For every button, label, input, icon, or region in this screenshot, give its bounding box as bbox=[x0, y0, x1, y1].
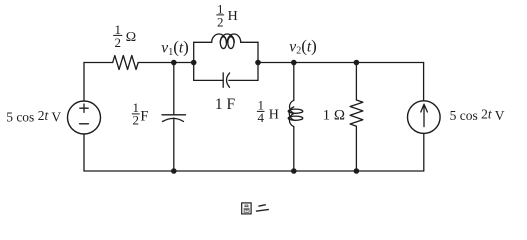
label inductor 1/4 H bbox=[257, 98, 279, 126]
inductor L 1/2 H loop 2 bbox=[228, 37, 234, 49]
wire branch below capacitor C 1/2 F to bottom rail bbox=[173, 118, 175, 171]
svg-text:2: 2 bbox=[217, 15, 224, 30]
wire top rail from LC right node to top-right corner bbox=[258, 62, 424, 64]
wire right vertical below current source bbox=[423, 133, 425, 171]
wire LC tank left riser bbox=[193, 42, 195, 80]
二 character bbox=[256, 205, 269, 212]
current source Is circle bbox=[408, 101, 441, 134]
圖 character bbox=[242, 203, 251, 214]
node capacitor bottom dot bbox=[171, 168, 177, 174]
wire branch v1 down to capacitor C 1/2 F bbox=[173, 63, 175, 115]
wire LC tank top branch right bbox=[241, 41, 258, 43]
capacitor C 1 F straight plate bbox=[222, 73, 224, 87]
inductor L 1/4 H hump 3 bbox=[289, 114, 293, 127]
svg-text:H: H bbox=[269, 108, 279, 123]
svg-text:5 cos 2t V: 5 cos 2t V bbox=[6, 108, 61, 124]
node inductor bottom dot bbox=[291, 168, 297, 174]
inductor L 1/4 H hump 1 bbox=[290, 100, 294, 113]
node resistor bottom dot bbox=[354, 168, 360, 174]
node v2 junction dot bbox=[291, 60, 297, 66]
voltage source Vs circle bbox=[68, 101, 101, 134]
wire left vertical above voltage source bbox=[83, 63, 85, 102]
wire left vertical below voltage source bbox=[83, 134, 85, 171]
label capacitor 1/2 F bbox=[132, 100, 149, 128]
svg-text:Ω: Ω bbox=[126, 30, 136, 45]
label figure caption 圖二 (drawn strokes) bbox=[242, 203, 269, 214]
inductor L 1/4 H loop 2 bbox=[288, 116, 303, 120]
capacitor C 1/2 F straight plate bbox=[162, 114, 186, 116]
voltage source plus sign bbox=[80, 104, 88, 112]
wire LC tank right riser bbox=[257, 42, 259, 80]
wire below resistor R 1 ohm to bottom rail bbox=[355, 126, 357, 171]
svg-text:v2(t): v2(t) bbox=[289, 37, 317, 57]
inductor L 1/4 H loop 1 bbox=[288, 109, 303, 113]
wire LC tank bottom branch right bbox=[229, 79, 258, 81]
inductor L 1/2 H hump 2 bbox=[220, 34, 234, 42]
wire branch v2 down to inductor L 1/4 H bbox=[293, 63, 295, 101]
capacitor C 1/2 F curved plate bbox=[163, 118, 184, 121]
capacitor C 1 F curved plate bbox=[227, 73, 230, 87]
svg-text:4: 4 bbox=[257, 110, 264, 125]
wire top rail left segment bbox=[84, 62, 113, 64]
wire right vertical above current source bbox=[423, 63, 425, 101]
svg-text:v1(t): v1(t) bbox=[161, 38, 189, 58]
node v1 junction dot bbox=[171, 60, 177, 66]
resistor R 1 ohm (vertical zigzag) bbox=[350, 100, 363, 126]
svg-text:H: H bbox=[228, 9, 238, 24]
resistor R 1/2 ohm (horizontal zigzag) bbox=[113, 56, 139, 70]
wire below inductor L 1/4 H to bottom rail bbox=[293, 127, 295, 171]
node LC right dot bbox=[255, 60, 261, 66]
voltage source minus sign bbox=[80, 123, 89, 125]
wire top rail from resistor to LC left node bbox=[138, 62, 194, 64]
svg-text:5 cos 2t V: 5 cos 2t V bbox=[450, 106, 505, 123]
wire LC tank bottom branch left bbox=[194, 79, 224, 81]
current source arrow bbox=[421, 104, 428, 126]
wire branch down to resistor R 1 ohm bbox=[355, 63, 357, 101]
node LC left dot bbox=[191, 60, 197, 66]
label inductor 1/2 H bbox=[216, 1, 237, 29]
inductor L 1/2 H loop 1 bbox=[220, 37, 226, 49]
svg-text:F: F bbox=[140, 109, 148, 125]
svg-text:1 Ω: 1 Ω bbox=[323, 108, 345, 124]
label resistor 1/2 ohm bbox=[113, 22, 136, 50]
inductor L 1/2 H hump 3 bbox=[227, 34, 240, 42]
inductor L 1/2 H hump 1 bbox=[212, 34, 227, 42]
svg-text:2: 2 bbox=[114, 35, 121, 50]
svg-text:2: 2 bbox=[132, 113, 139, 128]
wire LC tank top branch left bbox=[194, 41, 212, 43]
wire bottom rail bbox=[84, 170, 424, 172]
inductor L 1/4 H hump 2 bbox=[289, 107, 294, 120]
svg-text:1 F: 1 F bbox=[215, 96, 236, 113]
node resistor top dot bbox=[354, 60, 360, 66]
